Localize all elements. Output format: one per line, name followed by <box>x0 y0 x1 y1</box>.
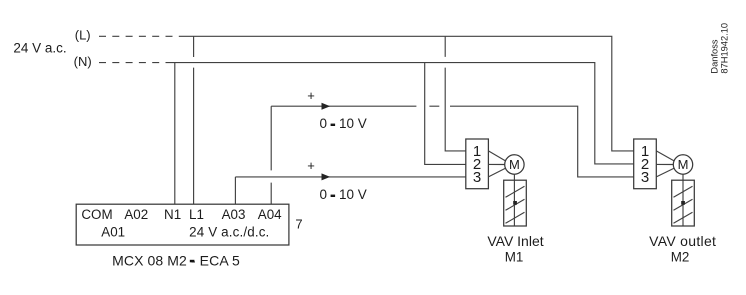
M2 link pin1 to motor <box>656 151 674 161</box>
svg-text:Danfoss: Danfoss <box>709 39 719 73</box>
svg-text:M: M <box>509 157 520 172</box>
wire L main run to VAV outlet terminal 1 <box>184 36 634 151</box>
wire N drop to VAV inlet terminal 2 <box>425 63 466 165</box>
svg-text:MCX 08 M2 - ECA 5: MCX 08 M2 - ECA 5 <box>112 252 240 268</box>
svg-text:A01: A01 <box>101 224 125 239</box>
arrow signal 2 <box>322 173 331 180</box>
svg-text:0 - 10 V: 0 - 10 V <box>320 187 367 202</box>
svg-text:+: + <box>307 158 315 173</box>
damper M1 body <box>504 180 527 226</box>
svg-text:M: M <box>678 157 689 172</box>
wire L dashed segment <box>99 35 184 37</box>
svg-text:87H1942.10: 87H1942.10 <box>720 23 730 74</box>
svg-text:(N): (N) <box>74 54 92 69</box>
hyphen bold signal 1 <box>331 124 336 126</box>
svg-text:VAV Inlet: VAV Inlet <box>487 233 543 249</box>
svg-text:COM: COM <box>81 207 112 222</box>
hyphen bold MCX label <box>190 260 195 263</box>
wire N drop to N1 <box>174 63 176 205</box>
M2 link pin2 to motor <box>656 163 673 165</box>
controller box MCX <box>76 204 289 245</box>
wire L drop to L1 (gap crossing N) <box>193 36 195 204</box>
svg-text:24 V a.c.: 24 V a.c. <box>13 40 66 55</box>
svg-text:7: 7 <box>295 217 302 232</box>
damper M1 pivot <box>513 201 517 205</box>
svg-text:3: 3 <box>641 169 649 186</box>
svg-text:3: 3 <box>473 169 481 186</box>
motor M1 circle <box>505 155 524 174</box>
svg-text:A04: A04 <box>258 207 282 222</box>
svg-text:N1: N1 <box>164 207 181 222</box>
damper M2 blade 1 <box>674 186 693 197</box>
wire N main run to VAV outlet terminal 2 <box>166 63 634 164</box>
damper M2 pivot <box>681 201 685 205</box>
actuator M2 terminal box <box>634 139 657 189</box>
damper M1 blade 2 <box>506 199 525 210</box>
M1 link pin1 to motor <box>488 151 506 161</box>
damper M2 blade 2 <box>674 199 693 210</box>
M2 shaft <box>682 174 684 226</box>
damper M2 body <box>672 180 695 226</box>
arrow signal 1 <box>322 103 331 110</box>
svg-text:L1: L1 <box>189 207 204 222</box>
svg-text:24 V a.c./d.c.: 24 V a.c./d.c. <box>189 224 269 239</box>
wire A04 drop to controller (gaps at 0-10V crossing) <box>270 106 272 204</box>
motor M2 circle <box>673 155 692 174</box>
M1 link pin3 to motor <box>488 168 506 177</box>
svg-text:VAV outlet: VAV outlet <box>649 233 716 249</box>
svg-text:M2: M2 <box>671 250 690 265</box>
svg-text:M1: M1 <box>505 250 524 265</box>
wire A03 drop to controller <box>234 177 236 204</box>
damper M1 blade 3 <box>506 212 525 223</box>
M1 link pin2 to motor <box>488 163 504 165</box>
damper M1 blade 1 <box>506 186 525 197</box>
M1 shaft <box>513 174 515 226</box>
damper M2 blade 3 <box>674 212 693 223</box>
svg-text:(L): (L) <box>75 27 91 42</box>
wire A03 0-10V signal run to VAV inlet terminal 3 <box>235 176 465 178</box>
wire L drop to VAV inlet terminal 1 (gap crossing N) <box>445 36 466 151</box>
svg-text:+: + <box>307 88 315 103</box>
svg-text:A03: A03 <box>222 207 246 222</box>
hyphen bold signal 2 <box>331 195 336 197</box>
wire A04 0-10V signal run to VAV outlet terminal 3 (gaps at crossings) <box>271 106 634 177</box>
wire N dashed segment <box>99 62 166 64</box>
svg-text:A02: A02 <box>124 207 148 222</box>
svg-text:0 - 10 V: 0 - 10 V <box>320 116 367 131</box>
actuator M1 terminal box <box>466 139 489 189</box>
M2 link pin3 to motor <box>656 168 674 177</box>
